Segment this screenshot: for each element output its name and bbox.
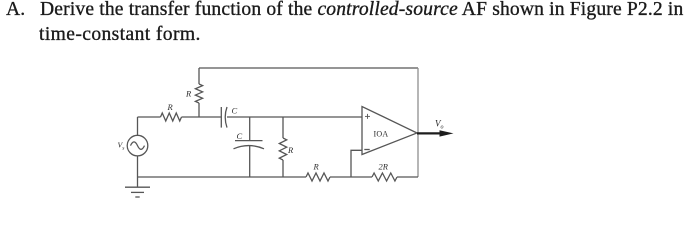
svg-text:Vs: Vs (118, 141, 125, 152)
wire feedback column (417, 68, 419, 177)
wire R1 to C1 (182, 116, 222, 118)
op-amp U1 (362, 107, 417, 155)
svg-text:R: R (287, 145, 294, 155)
problem text line 2 (39, 24, 201, 46)
voltage source Vs (127, 135, 148, 156)
wire R4 to node A (330, 176, 372, 178)
svg-text:IOA: IOA (374, 129, 389, 138)
capacitor C2 shunt (234, 141, 265, 149)
svg-text:Vo: Vo (435, 119, 444, 131)
problem text line 1 (6, 0, 683, 21)
svg-text:C: C (232, 106, 238, 116)
resistor R4 (306, 173, 330, 181)
wire R2 top stub (198, 68, 200, 84)
wire source top vertical (137, 117, 139, 135)
resistor R5 (372, 173, 397, 181)
wire C1 to op-amp plus input (227, 116, 362, 118)
wire C2 bottom stub (249, 146, 251, 177)
svg-text:R: R (185, 89, 192, 99)
svg-text:2R: 2R (379, 162, 389, 172)
wire top feedback rail (199, 67, 418, 69)
wire input row left (138, 116, 161, 118)
wire source bottom to ground rail (137, 156, 139, 177)
op-amp minus input marker (364, 149, 369, 151)
op-amp plus input marker (365, 114, 370, 119)
wire R3 top stub (282, 117, 284, 138)
svg-text:C: C (237, 131, 243, 141)
wire R2 bottom stub (198, 103, 200, 117)
wire node A to inverting input (351, 150, 362, 177)
resistor R2 vertical (195, 84, 202, 103)
resistor R1 (161, 113, 182, 121)
wire R5 to feedback column (397, 176, 418, 178)
wire C2 top stub (249, 117, 251, 141)
capacitor C1 series (221, 107, 227, 128)
resistor R3 shunt (279, 138, 286, 160)
output arrow Vo (417, 130, 454, 136)
svg-text:R: R (167, 102, 174, 112)
wire R3 bottom stub (282, 160, 284, 177)
wire bottom rail left (138, 176, 307, 178)
ground (125, 177, 150, 197)
svg-text:R: R (313, 162, 320, 172)
